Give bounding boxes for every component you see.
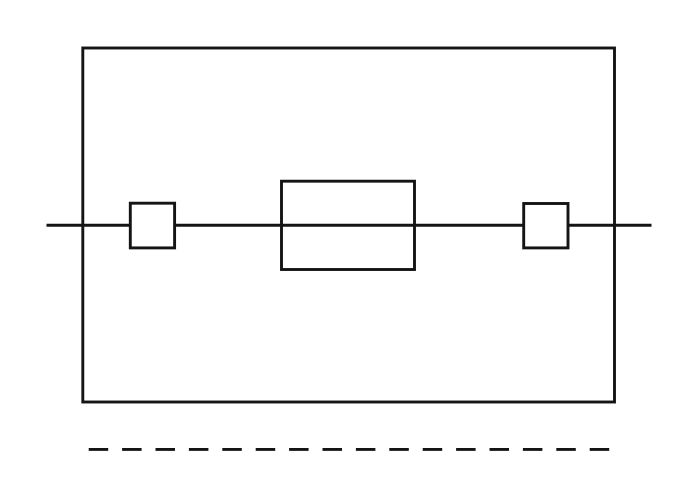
housing outline	[83, 48, 615, 402]
wire	[47, 224, 652, 227]
fuse F1	[282, 181, 415, 269]
DIN rail (dashed)	[89, 448, 610, 451]
clamp contact right	[524, 204, 568, 248]
clamp contact left	[130, 203, 174, 248]
